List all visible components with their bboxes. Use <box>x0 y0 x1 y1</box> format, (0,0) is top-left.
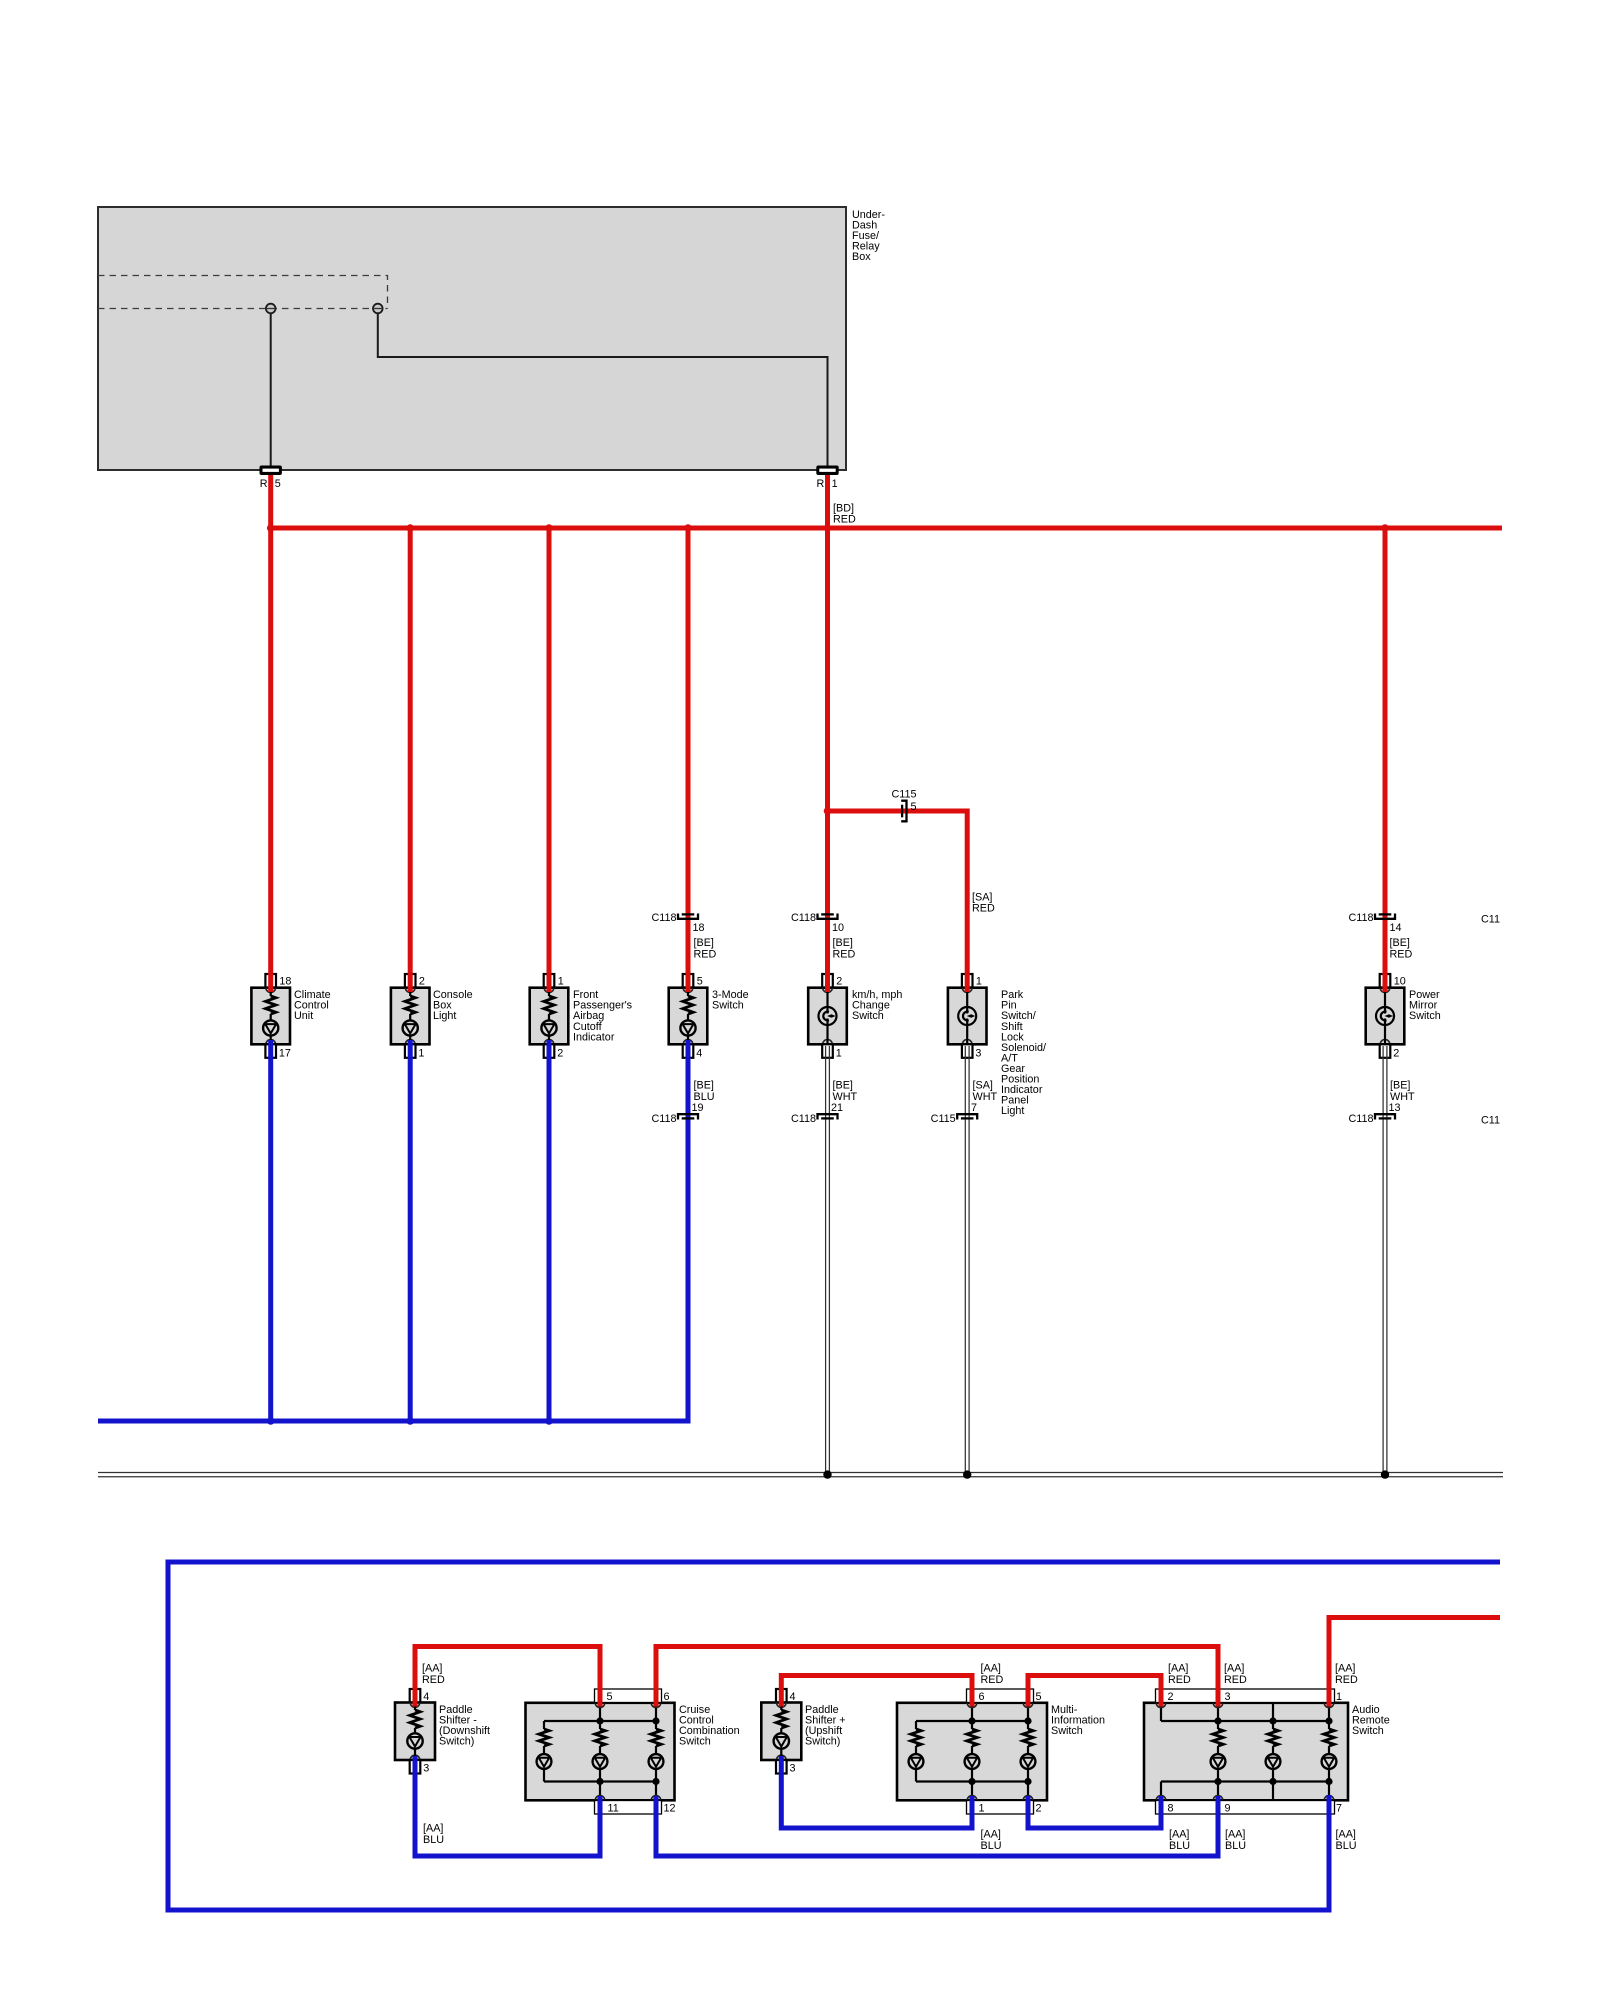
wire [BE] WHT: km/h switch pin 1 to ground bus <box>826 1046 830 1473</box>
pin 2 (top pin) <box>405 974 416 988</box>
svg-text:17: 17 <box>279 1048 291 1060</box>
svg-text:1: 1 <box>976 976 982 988</box>
svg-text:RED: RED <box>833 514 856 526</box>
svg-text:BLU: BLU <box>981 1840 1002 1852</box>
svg-text:4: 4 <box>696 1048 702 1060</box>
pin 5 (top pin) <box>683 974 694 988</box>
label [BE] RED (km/h) <box>833 937 856 961</box>
resistor (internal) <box>409 988 411 996</box>
connector C118 pin 13 (inline) <box>1348 1102 1400 1125</box>
svg-text:2: 2 <box>1036 1803 1042 1815</box>
junction dots on red bus <box>267 524 1389 532</box>
pin 1 (top pin) <box>544 974 555 988</box>
component body <box>251 988 290 1045</box>
svg-text:6: 6 <box>979 1691 985 1703</box>
component body <box>948 988 987 1045</box>
internal dashed bus inside fuse/relay box <box>98 276 388 309</box>
bulb (internal) <box>826 988 828 1007</box>
terminal node A (fuse box) <box>266 304 276 314</box>
svg-text:RED: RED <box>694 949 717 961</box>
component: audio remote switch (3 lamp branches + feed), pins 2/3/1 top, 8/9/7 bottom <box>1144 1703 1390 1801</box>
svg-text:[AA]: [AA] <box>1225 1829 1245 1841</box>
pin 3 (bottom pin) <box>776 1760 787 1774</box>
label [BE] WHT (km/h) <box>833 1080 858 1104</box>
svg-text:Light: Light <box>433 1010 456 1022</box>
svg-text:Switch: Switch <box>852 1010 884 1022</box>
wire [BD] RED: R5 to bus <box>268 475 273 528</box>
lamp (internal) <box>409 1014 411 1021</box>
component: paddle shifter - (downshift switch), pins 4/3 <box>395 1689 490 1775</box>
lamp (internal) <box>414 1728 416 1734</box>
svg-text:RED: RED <box>1168 1674 1191 1686</box>
resistor (internal) <box>687 988 689 996</box>
label [AA] BLU (multi-info pin 1) <box>981 1829 1002 1853</box>
pin 1 (bottom pin) <box>405 1044 416 1058</box>
svg-text:Unit: Unit <box>294 1010 313 1022</box>
svg-text:[AA]: [AA] <box>1336 1829 1356 1841</box>
svg-text:BLU: BLU <box>1336 1840 1357 1852</box>
svg-text:C118: C118 <box>1348 1113 1373 1125</box>
svg-text:Switch: Switch <box>679 1736 711 1748</box>
label [BE] WHT (power mirror) <box>1390 1080 1415 1104</box>
component: 3-mode switch (lamp), pins 5/4 <box>669 974 749 1060</box>
connector R1 <box>816 466 838 491</box>
svg-text:[AA]: [AA] <box>981 1829 1001 1841</box>
component: cruise control combination switch (3 lamp branches), pins 5/6 top, 11/12 bottom <box>526 1703 740 1801</box>
pin 4 (top pin) <box>776 1689 787 1703</box>
branch at x=1028: resistor + lamp <box>1027 1721 1029 1729</box>
svg-text:C115: C115 <box>931 1113 956 1125</box>
svg-text:4: 4 <box>790 1691 796 1703</box>
svg-text:C11: C11 <box>1481 914 1500 926</box>
wire: fuse box internal lead to R5 <box>270 311 272 466</box>
internal rails <box>544 1720 656 1722</box>
resistor (internal) <box>414 1703 416 1710</box>
svg-text:4: 4 <box>423 1691 429 1703</box>
label [AA] RED (audio pin 3) <box>1224 1663 1247 1687</box>
component body <box>1366 988 1405 1045</box>
svg-text:5: 5 <box>697 976 703 988</box>
svg-text:[BE]: [BE] <box>833 1080 853 1092</box>
svg-text:1: 1 <box>979 1803 985 1815</box>
component body <box>897 1703 1047 1801</box>
branch at x=916: resistor + lamp <box>915 1721 917 1729</box>
svg-text:RED: RED <box>833 949 856 961</box>
component body <box>761 1703 801 1761</box>
lamp (internal) <box>548 1014 550 1021</box>
svg-text:C118: C118 <box>791 1113 816 1125</box>
svg-text:RED: RED <box>1224 1674 1247 1686</box>
label [AA] BLU (audio pin 9) <box>1225 1829 1246 1853</box>
branch at x=656: resistor + lamp <box>655 1721 657 1729</box>
connector housing: cruise control pins 5,6 <box>595 1689 670 1703</box>
under-dash fuse/relay box <box>98 207 885 470</box>
wire [AA] RED: paddle shifter + pin 4 to multi-information pin 6 <box>781 1676 972 1707</box>
svg-text:Light: Light <box>1001 1105 1024 1117</box>
junction dots on ground bus <box>823 1470 1389 1478</box>
svg-text:7: 7 <box>971 1102 977 1114</box>
wire [BE] WHT: power mirror switch pin 2 to ground bus <box>1383 1046 1387 1473</box>
pin 17 (bottom pin) <box>265 1044 276 1058</box>
svg-text:1: 1 <box>1336 1691 1342 1703</box>
wire: fuse box internal lead to R1 <box>378 311 828 466</box>
internal rails <box>916 1720 1028 1722</box>
wire [AA] BLU: paddle shifter - pin 3 to cruise control pin 11 <box>415 1756 600 1856</box>
connector housing: audio remote pins 2,3,1 <box>1156 1689 1343 1703</box>
bulb (internal) <box>1384 988 1386 1007</box>
svg-text:6: 6 <box>664 1691 670 1703</box>
label [AA] BLU (audio pin 8) <box>1169 1829 1190 1853</box>
svg-text:[BE]: [BE] <box>694 937 714 949</box>
connector C118 pin 10 (inline) <box>791 912 844 934</box>
label [BD] RED <box>833 503 856 526</box>
svg-text:[AA]: [AA] <box>1168 1663 1188 1675</box>
svg-text:Switch: Switch <box>1051 1725 1083 1737</box>
svg-text:R: R <box>260 478 268 490</box>
svg-text:Switch: Switch <box>1409 1010 1441 1022</box>
label [AA] BLU (audio pin 7) <box>1336 1829 1357 1853</box>
svg-text:Box: Box <box>852 251 871 263</box>
svg-text:BLU: BLU <box>423 1834 444 1846</box>
svg-text:2: 2 <box>836 976 842 988</box>
svg-text:[SA]: [SA] <box>973 1080 993 1092</box>
svg-text:C118: C118 <box>1348 912 1373 924</box>
connector C118 pin 18 (inline) <box>651 912 704 934</box>
svg-text:[AA]: [AA] <box>1335 1663 1355 1675</box>
svg-text:[BE]: [BE] <box>1390 1080 1410 1092</box>
wire: white ground bus (double line) <box>98 1473 1503 1477</box>
resistor (internal) <box>780 1703 782 1710</box>
component body <box>391 988 430 1045</box>
component body <box>1144 1703 1348 1801</box>
wire [AA] RED: feed to audio remote pin 1 <box>1329 1618 1500 1707</box>
component: power mirror switch (bulb), pins 10/2 <box>1366 974 1441 1060</box>
internal junction dots <box>1214 1717 1221 1724</box>
connector R5 <box>260 466 282 491</box>
pin 1 (bottom pin) <box>822 1044 833 1058</box>
component body <box>395 1703 435 1761</box>
wire [BE] RED: red drop to 3-mode switch pin 5 <box>686 528 691 992</box>
connector C118 pin 19 (inline) <box>651 1102 703 1125</box>
svg-text:1: 1 <box>558 976 564 988</box>
svg-text:13: 13 <box>1389 1102 1401 1114</box>
svg-text:[BE]: [BE] <box>1390 937 1410 949</box>
svg-text:[BE]: [BE] <box>694 1080 714 1092</box>
svg-text:10: 10 <box>832 922 844 934</box>
svg-text:2: 2 <box>557 1048 563 1060</box>
pin 4 (bottom pin) <box>683 1044 694 1058</box>
svg-text:3: 3 <box>790 1763 796 1775</box>
wire [AA] RED: paddle shifter - pin 4 to cruise control pin 5 <box>415 1647 600 1707</box>
connector C118 pin 14 (inline) <box>1348 912 1401 934</box>
pin 1 (top pin) <box>962 974 973 988</box>
svg-text:[BE]: [BE] <box>833 937 853 949</box>
svg-text:Switch): Switch) <box>439 1736 474 1748</box>
svg-text:C118: C118 <box>651 912 676 924</box>
lamp (internal) <box>780 1728 782 1734</box>
svg-text:3: 3 <box>975 1048 981 1060</box>
wire [AA] BLU: paddle shifter + pin 3 to multi-information pin 1 <box>781 1756 972 1828</box>
svg-text:[AA]: [AA] <box>981 1663 1001 1675</box>
lamp (internal) <box>687 1014 689 1021</box>
svg-text:5: 5 <box>1036 1691 1042 1703</box>
svg-text:RED: RED <box>422 1674 445 1686</box>
connector C115 pin 7 (inline) <box>931 1102 978 1125</box>
component: climate control unit (illumination lamp), pins 18/17 <box>251 974 330 1060</box>
component: park pin switch / shift lock solenoid / AT gear position indicator panel light (bulb), pins 1/3 <box>948 974 1046 1117</box>
pin 2 (top pin) <box>822 974 833 988</box>
svg-text:2: 2 <box>1393 1048 1399 1060</box>
svg-text:C118: C118 <box>651 1113 676 1125</box>
label [SA] WHT (park pin) <box>973 1080 998 1104</box>
wire: blue loop border (bottom section) <box>168 1562 1500 1910</box>
svg-text:BLU: BLU <box>1169 1840 1190 1852</box>
svg-text:[AA]: [AA] <box>1224 1663 1244 1675</box>
svg-text:RED: RED <box>972 903 995 915</box>
label [AA] RED (multi-info pin 6) <box>981 1663 1004 1687</box>
svg-text:Switch): Switch) <box>805 1736 840 1748</box>
component body <box>808 988 847 1045</box>
wire: red drop to front passenger airbag indicator pin 1 <box>547 528 552 992</box>
label C118 (cut off at right edge, upper) <box>1481 914 1500 926</box>
pin 2 (bottom pin) <box>544 1044 555 1058</box>
wire [SA] WHT: park pin switch pin 3 to ground bus <box>965 1046 969 1473</box>
svg-text:3: 3 <box>1225 1691 1231 1703</box>
svg-text:5: 5 <box>607 1691 613 1703</box>
junction dots on blue bus <box>267 1417 553 1425</box>
wire [BE] BLU: 3-mode switch pin 4 to blue bus <box>98 1040 688 1421</box>
svg-text:[AA]: [AA] <box>1169 1829 1189 1841</box>
branch at x=972: resistor + lamp <box>971 1721 973 1729</box>
connector C115 pin 5 (inline on horizontal wire) <box>892 789 917 822</box>
svg-text:18: 18 <box>693 922 705 934</box>
label [AA] BLU (paddle shifter -) <box>423 1823 444 1847</box>
svg-text:10: 10 <box>1394 976 1406 988</box>
svg-text:C118: C118 <box>791 912 816 924</box>
svg-text:Switch: Switch <box>712 1000 744 1012</box>
svg-text:C115: C115 <box>892 789 917 801</box>
bulb (internal) <box>966 988 968 1007</box>
connector C118 pin 21 (inline) <box>791 1102 843 1125</box>
wire: blue return climate control pin 17 to blue bus <box>268 1040 273 1421</box>
internal junction dots <box>968 1717 975 1724</box>
branch at x=600: resistor + lamp <box>599 1721 601 1729</box>
wire [AA] RED: cruise control pin 6 to audio remote pin 3 <box>656 1647 1218 1707</box>
svg-text:Switch: Switch <box>1352 1725 1384 1737</box>
component body <box>526 1703 675 1801</box>
svg-text:11: 11 <box>608 1803 619 1815</box>
label [AA] RED (audio pin 1) <box>1335 1663 1358 1687</box>
component: front passenger's airbag cutoff indicator (lamp), pins 1/2 <box>530 974 633 1060</box>
wire [BE] RED: red drop to power mirror switch pin 10 <box>1383 528 1388 992</box>
component: console box light (lamp), pins 2/1 <box>391 974 473 1060</box>
wire [AA] RED: multi-information pin 5 to audio remote pin 2 <box>1028 1676 1161 1707</box>
svg-text:7: 7 <box>1336 1803 1342 1815</box>
wire [SA] RED: branch through C115 to park pin switch pin 1 <box>824 807 968 992</box>
pin 18 (top pin) <box>265 974 276 988</box>
svg-text:1: 1 <box>832 478 838 490</box>
branch at x=1218: resistor + lamp <box>1217 1721 1219 1729</box>
svg-text:1: 1 <box>836 1048 842 1060</box>
component body <box>530 988 569 1045</box>
svg-text:14: 14 <box>1390 922 1402 934</box>
label [BE] RED (power mirror) <box>1390 937 1413 961</box>
connector housing: cruise control pins 11,12 <box>595 1801 676 1815</box>
svg-text:2: 2 <box>1168 1691 1174 1703</box>
svg-text:12: 12 <box>664 1803 676 1815</box>
svg-text:21: 21 <box>831 1102 843 1114</box>
label C118 (cut off at right edge, lower) <box>1481 1115 1500 1127</box>
svg-text:R: R <box>816 478 824 490</box>
pin entry leads and notches <box>1160 1703 1162 1721</box>
internal rails <box>1161 1720 1329 1722</box>
component: km/h mph change switch (bulb), pins 2/1 <box>808 974 902 1060</box>
resistor (internal) <box>548 988 550 996</box>
lamp (internal) <box>270 1014 272 1021</box>
svg-text:1: 1 <box>418 1048 424 1060</box>
component body <box>669 988 708 1045</box>
svg-text:8: 8 <box>1168 1803 1174 1815</box>
internal junction dots <box>596 1717 603 1724</box>
svg-text:C11: C11 <box>1481 1115 1500 1127</box>
wire [BD] RED: R1 down to km/h switch pin 2 <box>825 475 830 992</box>
svg-text:2: 2 <box>419 976 425 988</box>
label [BE] BLU (3-mode) <box>694 1080 715 1104</box>
terminal node B (fuse box) <box>373 304 383 314</box>
svg-text:[AA]: [AA] <box>422 1663 442 1675</box>
connector housing: multi-information pins 1,2 <box>967 1801 1042 1815</box>
label [AA] RED (paddle shifter -) <box>422 1663 445 1687</box>
svg-text:5: 5 <box>911 801 917 813</box>
pin entry leads and notches <box>599 1703 601 1721</box>
pin 2 (bottom pin) <box>1380 1044 1391 1058</box>
pin entry leads and notches <box>971 1703 973 1721</box>
component: paddle shifter + (upshift switch), pins 4/3 <box>761 1689 845 1775</box>
branch at x=1329: resistor + lamp <box>1328 1721 1330 1729</box>
branch at x=544: resistor + lamp <box>543 1721 545 1729</box>
wire: blue return console box light pin 1 <box>408 1040 413 1421</box>
svg-text:[AA]: [AA] <box>423 1823 443 1835</box>
resistor (internal) <box>270 988 272 996</box>
label [BE] RED (3-mode) <box>694 937 717 961</box>
svg-text:BLU: BLU <box>1225 1840 1246 1852</box>
svg-text:18: 18 <box>279 976 291 988</box>
branch at x=1273: resistor + lamp <box>1272 1721 1274 1729</box>
wire: red drop to climate control pin 18 <box>268 528 273 992</box>
pin 4 (top pin) <box>410 1689 421 1703</box>
wire: red power bus <box>271 526 1502 531</box>
svg-text:9: 9 <box>1225 1803 1231 1815</box>
svg-text:Indicator: Indicator <box>573 1031 615 1043</box>
svg-text:5: 5 <box>275 478 281 490</box>
pin 3 (bottom pin) <box>962 1044 973 1058</box>
wire: red drop to console box light pin 2 <box>408 528 413 992</box>
wire [AA] BLU: cruise control pin 12 to audio remote pin 9 <box>656 1796 1218 1856</box>
wire [AA] BLU: multi-information pin 2 to audio remote pin 8 <box>1028 1796 1161 1828</box>
pin 10 (top pin) <box>1380 974 1391 988</box>
svg-text:RED: RED <box>981 1674 1004 1686</box>
component: multi-information switch (3 lamp branches), pins 6/5 top, 1/2 bottom <box>897 1703 1105 1801</box>
label [AA] RED (audio pin 2) <box>1168 1663 1191 1687</box>
wire: blue return front passenger airbag indicator pin 2 <box>547 1040 552 1421</box>
label [SA] RED <box>972 892 995 915</box>
svg-text:3: 3 <box>423 1763 429 1775</box>
svg-text:RED: RED <box>1335 1674 1358 1686</box>
svg-text:RED: RED <box>1390 949 1413 961</box>
pin 3 (bottom pin) <box>410 1760 421 1774</box>
svg-text:19: 19 <box>692 1102 704 1114</box>
connector housing: multi-information pins 6,5 <box>967 1689 1042 1703</box>
connector housing: audio remote pins 8,9,7 <box>1156 1801 1343 1815</box>
